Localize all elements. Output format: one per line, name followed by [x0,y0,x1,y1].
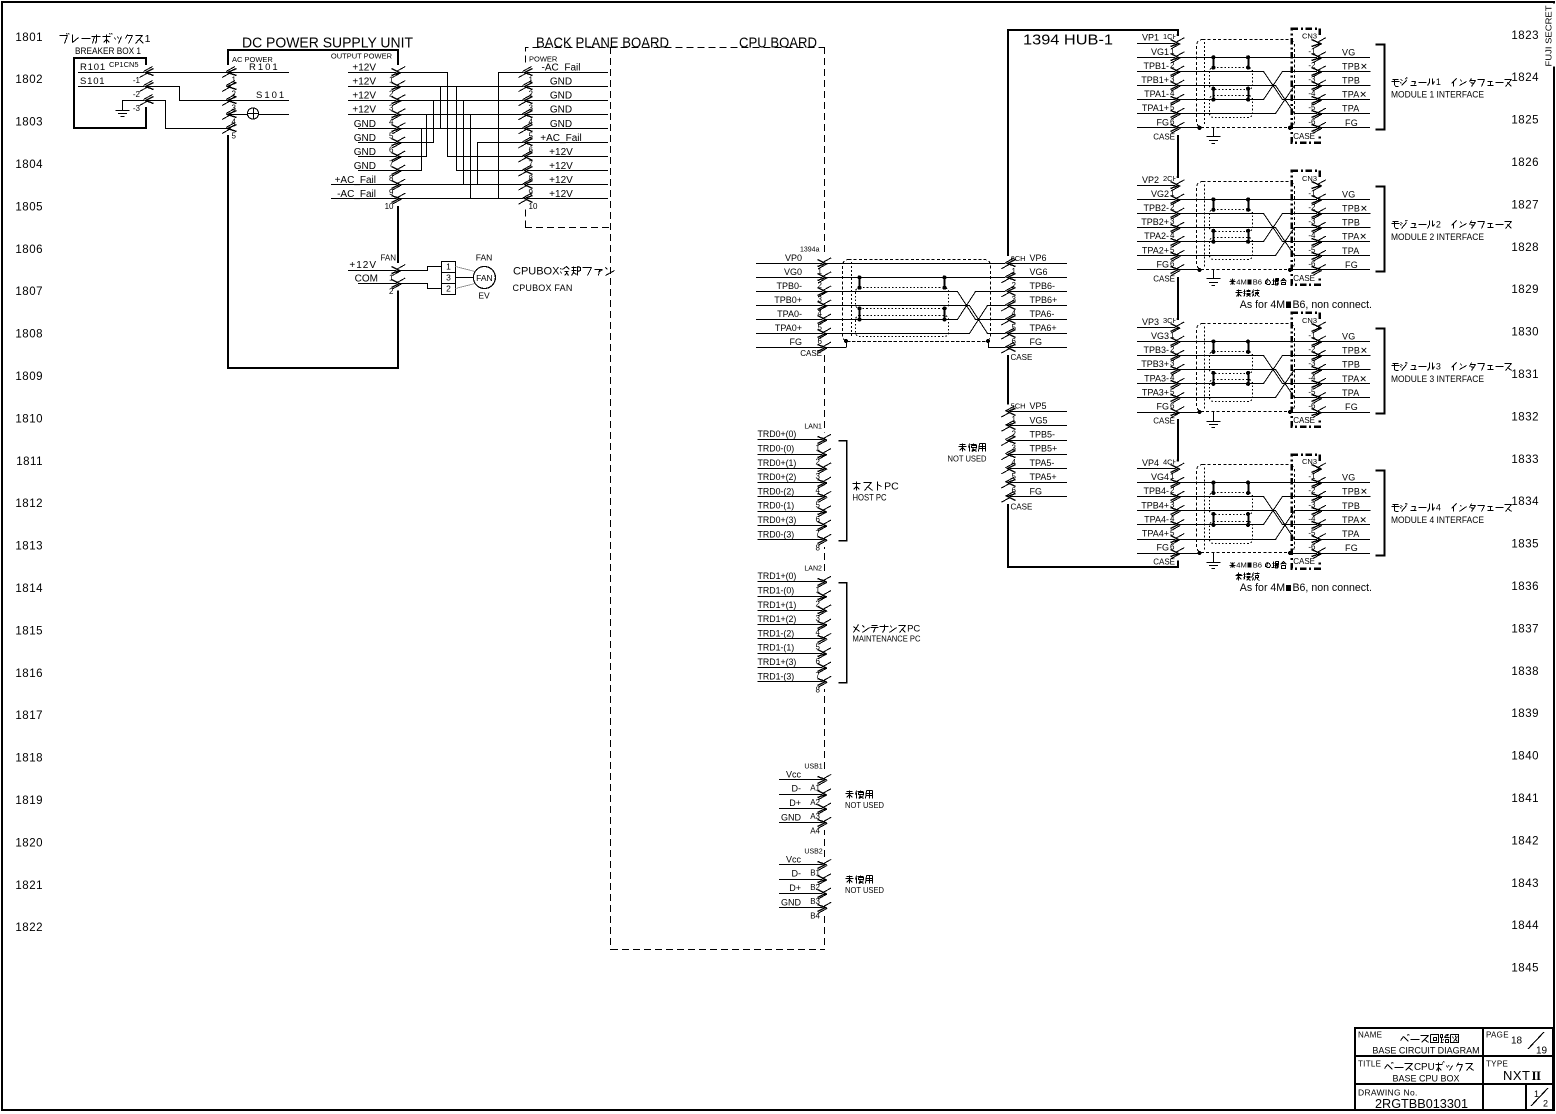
note 4MB6 non connect module 2 [1231,280,1235,285]
POWER pin 9 (+12V) [525,184,608,186]
CN3 module 3 pin 6 [1317,405,1321,419]
wire GND PSU pin7 to BP pin4 [399,115,526,157]
POWER pin 3 (GND) [525,100,608,102]
1394a pin TPB0- [756,291,825,293]
svg-text:PAGE: PAGE [1486,1031,1509,1040]
svg-text:FG: FG [1345,118,1358,128]
svg-text:-2: -2 [1308,486,1316,495]
wire S101 breaker to PSU [147,87,229,101]
svg-text:1801: 1801 [15,32,43,44]
1394a pin TPA0- [756,319,825,321]
svg-text:1: 1 [1436,77,1441,87]
LAN1 pin 5 (TRD0-(2)) [758,496,825,498]
svg-text:NXT: NXT [1503,1068,1531,1083]
CN3 module 3 pin 4 [1317,377,1321,391]
cable shield ground 2CH [1213,270,1215,279]
twisted pair TPA shield 3CH [1210,380,1253,402]
CN3 module 1 pin 3 [1317,78,1321,92]
cable shield ground 3CH [1213,412,1215,421]
wire +12V PSU pin4 to BP pin10 [399,115,526,199]
LAN1 pin 4 (TRD0+(2)) [758,482,825,484]
CN3 module 2 pin 3 [1317,220,1321,234]
2CH pin VG2 [1137,199,1178,201]
svg-text:TRD1+(2): TRD1+(2) [758,614,797,624]
wire out CN3 TPAx row [1291,99,1370,101]
FAN pin 2 COM [358,283,399,285]
CN3 module 2 pin 2 [1317,206,1321,220]
CN3 module 1 pin 4 [1317,92,1321,106]
svg-text:4M: 4M [1236,277,1247,286]
svg-text:+12V: +12V [549,175,573,186]
1394a pin VG0 [756,277,825,279]
4CH pin VG4 [1137,482,1178,484]
host PC bracket [839,441,847,541]
cable shield ground 1CH [1213,128,1215,137]
shield tie bars 1CH [1213,57,1215,67]
svg-text:As for 4M: As for 4M [1240,299,1285,311]
LAN2 pin 5 (TRD1-(2)) [758,638,825,640]
svg-text:-2: -2 [1308,61,1316,70]
CN3 module 3 pin 3 [1317,363,1321,377]
svg-text:1809: 1809 [15,371,43,383]
svg-text:1840: 1840 [1511,751,1539,763]
svg-text:TPB: TPB [1342,218,1360,228]
svg-text:CASE: CASE [1153,274,1175,283]
CN3 module 4 pin 2 [1317,490,1321,504]
CN3 module 1 pin top [1317,36,1321,50]
svg-text:-6: -6 [1308,117,1316,126]
svg-text:TPA2+: TPA2+ [1142,245,1169,255]
5CH pin VP5 [1008,411,1067,413]
svg-text:CPU: CPU [1414,1062,1435,1073]
LAN2 pin 7 (TRD1+(3)) [758,667,825,669]
svg-text:MODULE 3 INTERFACE: MODULE 3 INTERFACE [1391,374,1484,384]
svg-text:TITLE: TITLE [1358,1060,1381,1069]
module 2 interface bracket [1376,187,1385,272]
connector CP1CN5 pin -2 [144,79,148,93]
USB1 pin A4 (GND) [779,822,825,824]
svg-text:1818: 1818 [15,753,43,765]
6CH pin TPB6+ [1008,305,1067,307]
svg-text:Vcc: Vcc [786,854,802,864]
svg-text:CN3: CN3 [1302,174,1317,183]
FUJI SECRET vertical marking [1546,4,1556,67]
svg-text:1836: 1836 [1511,581,1539,593]
svg-text:GND: GND [354,119,376,130]
svg-text:-6: -6 [1308,259,1316,268]
svg-text:CPU BOARD: CPU BOARD [739,35,817,52]
3CH pin TPB3+ [1137,369,1178,371]
wire TPA0- to TPB6- [825,292,1008,320]
svg-text:-2: -2 [1308,345,1316,354]
CN3 module 2 pin 1 [1317,192,1321,206]
svg-text:TPB3+: TPB3+ [1141,359,1169,369]
svg-text:TPB4-: TPB4- [1143,486,1169,496]
svg-text:TRD0+(1): TRD0+(1) [758,458,797,468]
5CH pin FG [1008,496,1067,498]
svg-text:CASE: CASE [1153,417,1175,426]
FAN pin 1 +12V [348,270,399,272]
wire TPA1+ crossover [1178,86,1371,114]
svg-text:1807: 1807 [15,286,43,298]
svg-text:TPB5+: TPB5+ [1030,444,1058,454]
twisted pair TPA shield 1CH [1210,96,1253,118]
svg-text:GND: GND [550,119,572,130]
POWER pin 7 (+12V) [525,156,608,158]
svg-text:1823: 1823 [1511,30,1539,42]
6CH pin TPA6- [1008,319,1067,321]
cable shield 6CH outer [843,260,991,342]
1CH pin FG [1137,127,1178,129]
LAN2 pin 3 (TRD1+(1)) [758,610,825,612]
wire FG 2CH [1178,269,1200,271]
svg-text:1844: 1844 [1511,920,1539,932]
svg-text:D-: D- [792,784,802,794]
svg-text:1842: 1842 [1511,835,1539,847]
svg-text:-2: -2 [133,90,141,99]
svg-text:1837: 1837 [1511,623,1539,635]
svg-text:TPB2-: TPB2- [1143,203,1169,213]
wire TPB1- crossover [1178,72,1292,100]
wire TPA1- crossover [1178,72,1371,100]
1394 HUB-1 outline [1008,30,1178,567]
svg-text:+AC_Fail: +AC_Fail [540,133,581,144]
svg-text:1838: 1838 [1511,666,1539,678]
svg-text:BASE CIRCUIT DIAGRAM: BASE CIRCUIT DIAGRAM [1372,1046,1479,1056]
module 4 interface bracket [1376,471,1385,556]
6CH pin TPA6+ [1008,333,1067,335]
svg-text:FG: FG [1030,337,1043,347]
svg-text:TPB6+: TPB6+ [1030,295,1058,305]
title block outline [1355,1028,1553,1110]
maintenance PC label [854,625,859,633]
module 4 interface label [1393,504,1399,506]
wire +12V PSU pin2 to BP pin8 [399,87,526,171]
maintenance PC bracket [839,583,847,683]
svg-text:4: 4 [1436,503,1441,513]
svg-text:MODULE 4 INTERFACE: MODULE 4 INTERFACE [1391,515,1484,525]
svg-text:1820: 1820 [15,837,43,849]
USB2 pin B4 (GND) [779,907,825,909]
svg-text:MODULE 1 INTERFACE: MODULE 1 INTERFACE [1391,90,1484,100]
svg-text:+12V: +12V [549,189,573,200]
svg-text:CASE: CASE [1293,274,1315,283]
CN3 module 3 pin top [1317,320,1321,334]
wire TPB0+ to TPA6+ [825,306,1008,334]
3CH pin VP3 [1137,327,1178,329]
svg-text:BREAKER BOX 1: BREAKER BOX 1 [75,46,141,56]
wire TPB2+ crossover [1178,228,1299,256]
cable shield 2CH outer [1197,182,1295,270]
svg-text:-AC_Fail: -AC_Fail [542,63,581,74]
svg-text:1: 1 [446,262,451,272]
cable shield 3CH outer [1197,324,1295,412]
connector CN3 module 3 outline [1292,313,1320,427]
svg-text:3: 3 [446,273,451,283]
4CH pin TPA4- [1137,524,1178,526]
LAN2 pin 2 (TRD1-(0)) [758,596,825,598]
svg-text:1: 1 [145,33,151,45]
svg-text:5: 5 [232,131,237,140]
3CH pin VG3 [1137,341,1178,343]
svg-text:VP0: VP0 [785,253,802,263]
OUTPUT POWER pin 9 (+AC_Fail) [331,184,399,186]
POWER pin 6 (+AC_Fail) [525,142,608,144]
svg-text:VG5: VG5 [1030,415,1048,425]
svg-text:-AC_Fail: -AC_Fail [337,189,376,200]
svg-text:VG4: VG4 [1151,472,1169,482]
svg-text:CP1CN5: CP1CN5 [109,60,139,69]
wire FG 4CH [1178,553,1200,555]
CN3 module 2 pin 4 [1317,235,1321,249]
4CH pin TPB4+ [1137,510,1178,512]
svg-text:R101: R101 [80,62,106,73]
svg-text:TRD1-(3): TRD1-(3) [758,671,795,681]
wire R101 breaker to PSU [146,72,229,74]
5CH pin TPB5- [1008,440,1067,442]
svg-text:CASE: CASE [800,349,822,358]
shield bottom 6CH [852,341,984,343]
svg-text:TPB1-: TPB1- [1143,61,1169,71]
wire earth breaker to PSU [147,101,229,129]
svg-text:-1: -1 [1308,47,1316,56]
svg-text:1831: 1831 [1511,369,1539,381]
svg-text:TPA2-: TPA2- [1144,231,1169,241]
CN3 module 2 pin 6 [1317,263,1321,277]
wire TPB2- crossover [1178,214,1292,242]
connector CP1CN5 pin -1 [144,65,148,79]
svg-text:VP2: VP2 [1142,175,1159,185]
shield tie bars 6CH [859,277,861,287]
svg-text:1817: 1817 [15,710,43,722]
1394a pin VP0 [756,263,825,265]
LAN2 pin 1 (TRD1+(0)) [758,581,825,583]
wire VG3 to CN3-1 [1178,341,1370,343]
svg-text:R101: R101 [249,62,280,73]
svg-text:CN3: CN3 [1302,32,1317,41]
connector CN3 module 4 outline [1292,455,1320,569]
wire VG2 to CN3-1 [1178,199,1370,201]
AC POWER pin 1 [226,65,230,79]
POWER pin 4 (GND) [525,114,608,116]
svg-text:1825: 1825 [1511,115,1539,127]
svg-text:TRD1-(1): TRD1-(1) [758,643,795,653]
svg-text:2: 2 [389,287,394,296]
svg-text:BASE CPU BOX: BASE CPU BOX [1392,1074,1459,1084]
wire +12V PSU pin1 to BP pin7 [399,73,526,157]
svg-text:MAINTENANCE PC: MAINTENANCE PC [853,634,921,644]
1CH pin VP1 [1137,43,1178,45]
wire TPA2+ crossover [1178,228,1371,256]
shield tie bars 3CH [1213,342,1215,352]
svg-text:-4: -4 [1308,89,1316,98]
svg-text:FG: FG [790,337,803,347]
svg-text:-6: -6 [1308,543,1316,552]
twisted pair TPA shield 4CH [1210,522,1253,544]
LAN1 pin 8 (TRD0-(3)) [758,539,825,541]
wire FG 3CH [1178,412,1200,414]
USB2 pin B2 (D-) [779,879,825,881]
svg-text:TPA: TPA [1342,388,1359,398]
wire +12V PSU pin3 to BP pin9 [399,101,526,185]
cpu board dashed outline [610,47,612,950]
1CH pin TPB1- [1137,71,1178,73]
svg-text:TPA✕: TPA✕ [1342,374,1367,384]
1394a pin FG [756,347,825,349]
svg-text:VG: VG [1342,189,1355,199]
3CH pin TPA3+ [1137,397,1178,399]
wire FG 1CH [1178,127,1200,129]
svg-text:GND: GND [550,105,572,116]
svg-text:1802: 1802 [15,74,43,86]
svg-text:+12V: +12V [549,147,573,158]
wire out CN3 TPA row [1298,397,1370,399]
svg-text:1815: 1815 [15,625,43,637]
OUTPUT POWER pin 5 (GND) [358,128,399,130]
svg-text:1845: 1845 [1511,963,1539,975]
svg-text:FUJI SECRET: FUJI SECRET [1544,6,1554,67]
svg-text:B6, non connect.: B6, non connect. [1292,582,1372,594]
2CH pin TPA2+ [1137,255,1178,257]
svg-text:TRD1-(0): TRD1-(0) [758,586,795,596]
host PC label [853,483,861,485]
wire GND PSU pin6 to BP pin3 [399,101,526,143]
svg-text:TPA3+: TPA3+ [1142,387,1169,397]
twisted pair TPB shield 2CH [1210,210,1253,232]
LAN1 pin 2 (TRD0-(0)) [758,454,825,456]
LAN2 pin 6 (TRD1-(1)) [758,653,825,655]
svg-text:A4: A4 [810,826,820,835]
svg-text:TPA0+: TPA0+ [775,323,802,333]
CN3 module 1 pin 6 [1317,121,1321,135]
svg-text:NOT USED: NOT USED [845,885,884,895]
svg-text:2: 2 [446,284,451,294]
svg-text:TPA0-: TPA0- [777,309,802,319]
svg-text:TRD1-(2): TRD1-(2) [758,628,795,638]
svg-text:1394a: 1394a [800,247,820,254]
6CH pin TPB6- [1008,291,1067,293]
OUTPUT POWER pin 6 (GND) [358,142,399,144]
2CH pin TPB2+ [1137,227,1178,229]
wire GND PSU pin5 to BP pin2 [399,87,526,129]
CN3 module 3 pin 5 [1317,391,1321,405]
svg-text:TPB✕: TPB✕ [1342,346,1368,356]
CN3 module 4 pin 5 [1317,532,1321,546]
svg-text:TPA4+: TPA4+ [1142,529,1169,539]
svg-text:CN3: CN3 [1302,316,1317,325]
OUTPUT POWER pin 1 (+12V) [348,72,399,74]
svg-text:VG: VG [1342,473,1355,483]
svg-text:PC: PC [884,481,899,493]
protective earth symbol in PSU [229,114,290,116]
svg-text:B6: B6 [1253,561,1262,570]
svg-text:TPB✕: TPB✕ [1342,204,1368,214]
svg-text:1827: 1827 [1511,199,1539,211]
svg-text:TPA5+: TPA5+ [1030,472,1057,482]
svg-text:NOT USED: NOT USED [845,800,884,810]
wire TPB3- crossover [1178,356,1292,384]
svg-text:Vcc: Vcc [786,769,802,779]
svg-text:TRD0+(2): TRD0+(2) [758,472,797,482]
wire TPB0- to TPA6- [825,292,1008,320]
CN3 module 3 pin 1 [1317,334,1321,348]
svg-text:1843: 1843 [1511,878,1539,890]
svg-text:TPB1+: TPB1+ [1141,75,1169,85]
6CH pin FG [1008,347,1067,349]
USB1 pin A2 (D-) [779,794,825,796]
CN3 module 1 pin 2 [1317,64,1321,78]
wire FG HUB side with shield tie [988,347,1008,349]
wire TPA3- crossover [1178,356,1371,384]
wire GND PSU pin8 to BP pin5 [399,129,526,171]
svg-text:+12V: +12V [549,161,573,172]
svg-text:LAN1: LAN1 [804,424,822,431]
svg-text:As for 4M: As for 4M [1240,582,1285,594]
svg-text:1826: 1826 [1511,157,1539,169]
svg-text:4M: 4M [1236,561,1247,570]
3CH pin TPB3- [1137,355,1178,357]
2CH pin TPB2- [1137,213,1178,215]
svg-text:-3: -3 [1308,217,1316,226]
wire TPB3+ crossover [1178,370,1299,398]
svg-text:1810: 1810 [15,413,43,425]
module 1 interface label [1393,79,1399,81]
USB2 not used label [847,876,853,878]
svg-text:GND: GND [550,77,572,88]
svg-text:TRD0+(0): TRD0+(0) [758,429,797,439]
svg-text:-1: -1 [133,76,141,85]
svg-text:TPB: TPB [1342,501,1360,511]
svg-text:GND: GND [781,897,802,907]
6CH pin VG6 [1008,277,1067,279]
svg-text:+12V: +12V [352,105,376,116]
cable shield 4CH outer [1197,465,1295,553]
POWER pin 5 (GND) [525,128,608,130]
svg-text:2: 2 [1543,1099,1548,1109]
svg-text:LAN2: LAN2 [804,566,822,573]
svg-text:CPUBOX: CPUBOX [513,266,560,278]
svg-text:+AC_Fail: +AC_Fail [335,175,376,186]
OUTPUT POWER pin 8 (GND) [358,170,399,172]
twisted pair TPA shield 2CH [1210,238,1253,260]
svg-text:D+: D+ [789,883,801,893]
svg-text:HOST PC: HOST PC [853,493,887,503]
svg-text:TPB✕: TPB✕ [1342,61,1368,71]
svg-text:8: 8 [816,685,821,694]
svg-text:TPA3-: TPA3- [1144,373,1169,383]
svg-text:CASE: CASE [1293,416,1315,425]
svg-text:B6, non connect.: B6, non connect. [1292,299,1372,311]
USB2 pin B3 (D+) [779,893,825,895]
svg-text:TPA6-: TPA6- [1030,309,1055,319]
USB2 pin B1 (Vcc) [779,864,825,866]
svg-text:+12V: +12V [352,63,376,74]
svg-text:CPUBOX FAN: CPUBOX FAN [513,283,573,293]
AC POWER pin 2 [226,79,230,93]
svg-text:1803: 1803 [15,117,43,129]
svg-text:FG: FG [1030,486,1043,496]
POWER pin 2 (GND) [525,86,608,88]
1394a pin TPB0+ [756,305,825,307]
svg-text:TPB2+: TPB2+ [1141,217,1169,227]
svg-text:-3: -3 [1308,359,1316,368]
LAN1 pin 6 (TRD0-(1)) [758,511,825,513]
svg-text:1805: 1805 [15,201,43,213]
svg-text:-1: -1 [1308,472,1316,481]
svg-text:-5: -5 [1308,103,1316,112]
svg-text:USB1: USB1 [804,763,822,770]
svg-text:-4: -4 [1308,373,1316,382]
